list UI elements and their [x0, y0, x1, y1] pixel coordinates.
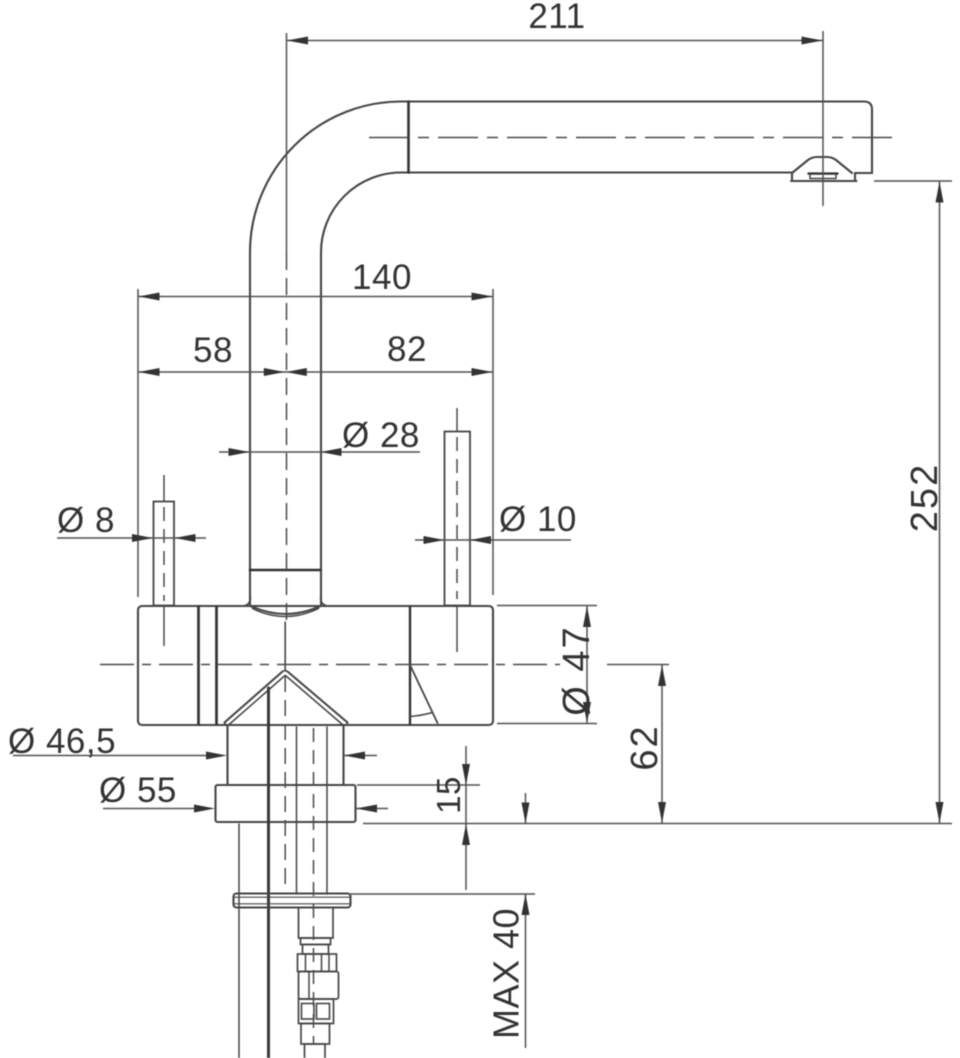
- arrow 252 bottom: [936, 802, 944, 823]
- arrow d28 left: [229, 448, 250, 456]
- body outline: [138, 606, 493, 725]
- flange 55 outline: [216, 785, 356, 822]
- stud line left: [296, 727, 298, 894]
- arrow 15 top: [462, 764, 470, 785]
- spout joint line: [407, 102, 410, 173]
- arrowheads: [132, 37, 944, 916]
- hose line thick dark: [267, 688, 270, 1058]
- dim max40 ref line: [351, 893, 536, 895]
- cone right outer line: [288, 672, 348, 723]
- left valve joint line 2: [215, 607, 218, 724]
- arrow d10 left: [424, 536, 445, 544]
- mounting plate inner line 2: [234, 903, 351, 905]
- arrow max40 bottom: [522, 894, 530, 915]
- arrow 211 right: [802, 37, 823, 45]
- spout horizontal centerline: [369, 137, 899, 139]
- fitting section A: [299, 908, 334, 939]
- svg-text:15: 15: [430, 776, 467, 814]
- dim d47 ref bottom: [497, 723, 597, 725]
- spout inner profile (bend + bottom): [321, 173, 792, 607]
- arrow d46.5 left: [206, 752, 227, 760]
- arrow 58 left: [139, 368, 160, 376]
- riser-body saddle arc outer: [251, 606, 321, 614]
- cone corner right: [344, 723, 348, 726]
- spout outer profile (bend + top + right end): [250, 102, 872, 607]
- cone right inner line: [286, 676, 344, 726]
- right valve small arc: [410, 713, 433, 717]
- right valve joint line: [409, 607, 411, 724]
- riser joint line: [250, 569, 321, 572]
- svg-text:Ø 28: Ø 28: [342, 416, 420, 455]
- fitting section B ring: [301, 938, 331, 945]
- fitting section G: [305, 1044, 326, 1058]
- left lever centerline bottom: [163, 607, 165, 646]
- svg-text:Ø 8: Ø 8: [57, 501, 115, 540]
- base cylinder 46.5 right edge: [342, 726, 344, 786]
- fitting ribbed nut C: [298, 954, 337, 972]
- dim 211 line: [287, 40, 824, 42]
- base cylinder 46.5 left edge: [226, 726, 228, 786]
- body horizontal centerline: [100, 664, 560, 666]
- arrow 140 left: [139, 293, 160, 301]
- fitting big nut D: [299, 972, 339, 1000]
- dim max40 line top tail: [525, 793, 527, 824]
- svg-text:58: 58: [193, 331, 233, 370]
- svg-text:211: 211: [528, 0, 585, 36]
- hose line left thin: [238, 824, 240, 1058]
- arrow 15 bottom: [462, 824, 470, 845]
- centerlines: [100, 138, 899, 1045]
- svg-text:140: 140: [352, 258, 412, 297]
- arrow d55 left: [194, 805, 215, 813]
- mounting plate: [234, 894, 351, 908]
- arrow max40 top: [522, 803, 530, 824]
- cone left outer line: [225, 672, 283, 723]
- stud line right: [326, 727, 328, 894]
- arrow d8 left: [132, 534, 153, 542]
- dim 140 extension right: [492, 289, 494, 595]
- aerator face dark top: [809, 172, 838, 174]
- svg-text:Ø 10: Ø 10: [499, 500, 577, 539]
- dim 252 ref top: [874, 180, 952, 182]
- arrow 62 top: [658, 665, 666, 686]
- dim d10 leader line: [415, 539, 571, 541]
- dim d55 right tail: [356, 808, 389, 810]
- svg-text:62: 62: [624, 724, 666, 770]
- dim 211 extension left: [286, 33, 288, 253]
- deck line: [363, 823, 952, 825]
- arrow 82 left: [286, 368, 307, 376]
- right valve diagonal: [410, 665, 438, 723]
- arrow d55 right: [356, 805, 377, 813]
- cone corner left: [225, 723, 229, 726]
- fitting vertical centerline: [313, 728, 315, 1044]
- arrow d47 bottom: [583, 702, 591, 723]
- arrow d10 right: [470, 536, 491, 544]
- dim d46.5 right tail: [344, 755, 378, 757]
- right lever centerline dashes: [456, 437, 458, 599]
- svg-text:Ø 55: Ø 55: [99, 771, 177, 810]
- left lever centerline dashes: [163, 507, 165, 601]
- left lever rod: [154, 502, 175, 606]
- fitting nut C ribs: [306, 954, 330, 972]
- fitting E square left: [302, 1004, 315, 1020]
- aerator dome: [791, 157, 857, 181]
- fitting section B2: [303, 945, 329, 955]
- dim d55 leader line: [103, 808, 195, 810]
- dim d8 leader line: [57, 537, 206, 539]
- fitting E square right: [317, 1004, 330, 1020]
- fitting section E: [299, 999, 334, 1024]
- dim d28 leader line: [219, 451, 420, 453]
- dim d47 ref top: [497, 605, 597, 607]
- dim 58-82 line: [138, 371, 493, 373]
- dim max40 line bottom tail: [525, 894, 527, 1048]
- riser vertical centerline (dashed part): [286, 253, 288, 620]
- riser base fillet left: [241, 597, 251, 606]
- left valve joint line 1: [197, 607, 200, 724]
- dim d46.5 leader line: [13, 755, 207, 757]
- arrow 252 top: [936, 182, 944, 203]
- arrow d47 top: [583, 606, 591, 627]
- riser base fillet right: [321, 597, 331, 606]
- arrow 58 right: [264, 368, 285, 376]
- dim 62 ref top: [607, 664, 669, 666]
- dim 62 line: [661, 665, 663, 824]
- arrow 62 bottom: [658, 802, 666, 823]
- arrow d46.5 right: [344, 752, 365, 760]
- aerator face rect: [810, 174, 836, 179]
- svg-text:252: 252: [904, 463, 946, 532]
- right lever centerline top: [456, 408, 458, 432]
- svg-text:82: 82: [387, 330, 427, 369]
- center solid stem line: [284, 622, 286, 671]
- dim 140 line: [138, 296, 493, 298]
- fitting section F: [301, 1024, 330, 1045]
- cone apex tip: [283, 670, 288, 673]
- dim 211 extension right: [822, 31, 824, 206]
- svg-text:Ø 47: Ø 47: [556, 625, 598, 715]
- dim 15 ref top: [357, 784, 480, 786]
- left lever centerline top: [163, 475, 165, 502]
- arrow 82 right: [472, 368, 493, 376]
- riser-body saddle arc inner: [253, 609, 319, 617]
- base vertical centerline: [284, 676, 286, 888]
- dim 15 line: [465, 746, 467, 890]
- right lever centerline bottom: [456, 607, 458, 652]
- dim d47 line: [586, 606, 588, 724]
- cone left inner line: [229, 676, 286, 726]
- dim 252 line: [939, 181, 941, 824]
- arrow 140 right: [472, 293, 493, 301]
- svg-text:Ø 46,5: Ø 46,5: [8, 722, 116, 761]
- dim 140 extension left: [137, 289, 139, 597]
- fitting nut D inner line: [308, 972, 310, 1000]
- mounting plate inner line 1: [234, 896, 351, 898]
- arrow 211 left: [287, 37, 308, 45]
- svg-text:MAX 40: MAX 40: [486, 908, 527, 1039]
- arrow d8 right: [175, 534, 196, 542]
- arrow d28 right: [321, 448, 342, 456]
- right lever rod: [445, 432, 471, 606]
